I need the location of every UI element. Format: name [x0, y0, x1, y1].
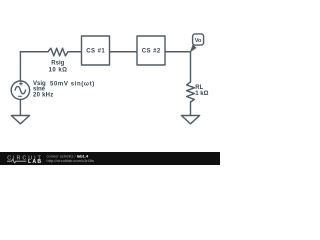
voltage source sine symbol: [15, 86, 26, 93]
svg-text:Rsig: Rsig: [51, 61, 64, 67]
voltage source plus sign: [20, 82, 23, 85]
ground symbol right: [181, 116, 199, 124]
svg-text:CS #1: CS #1: [86, 49, 105, 55]
voltage source V1 Vsig circle: [11, 81, 29, 99]
svg-text:10 kΩ: 10 kΩ: [49, 67, 68, 73]
node flag Vo pointer: [190, 44, 197, 52]
svg-text:Vo: Vo: [195, 38, 202, 44]
ground symbol left: [11, 116, 29, 124]
resistor R1 Rsig zigzag: [48, 48, 68, 56]
svg-text:http://circuitlab.com/c3rt3ts: http://circuitlab.com/c3rt3ts: [47, 158, 95, 163]
wire left vertical from corner to source: [19, 52, 21, 81]
footer CircuitLab logo waveform: [7, 159, 26, 163]
svg-text:1 kΩ: 1 kΩ: [195, 91, 208, 97]
wire RL to ground: [190, 102, 192, 116]
wire Rsig to CS #1: [68, 51, 82, 53]
svg-text:CS #2: CS #2: [142, 49, 161, 55]
wire right vertical node to RL: [190, 52, 192, 82]
wire CS #2 to node Vo: [165, 51, 191, 53]
svg-text:LAB: LAB: [28, 159, 42, 165]
svg-text:50mV sin(ωt): 50mV sin(ωt): [50, 81, 95, 87]
box CS #1 outline: [82, 36, 110, 65]
voltage source minus sign: [19, 95, 22, 97]
wire source to ground: [19, 99, 21, 115]
node flag Vo box: [193, 34, 204, 45]
wire left horizontal segment: [20, 51, 48, 53]
svg-text:20 kHz: 20 kHz: [33, 93, 54, 99]
box CS #2 outline: [137, 36, 165, 65]
wire CS #1 to CS #2: [110, 51, 138, 53]
resistor R2 RL zigzag: [187, 82, 195, 102]
footer bar: [0, 152, 220, 165]
